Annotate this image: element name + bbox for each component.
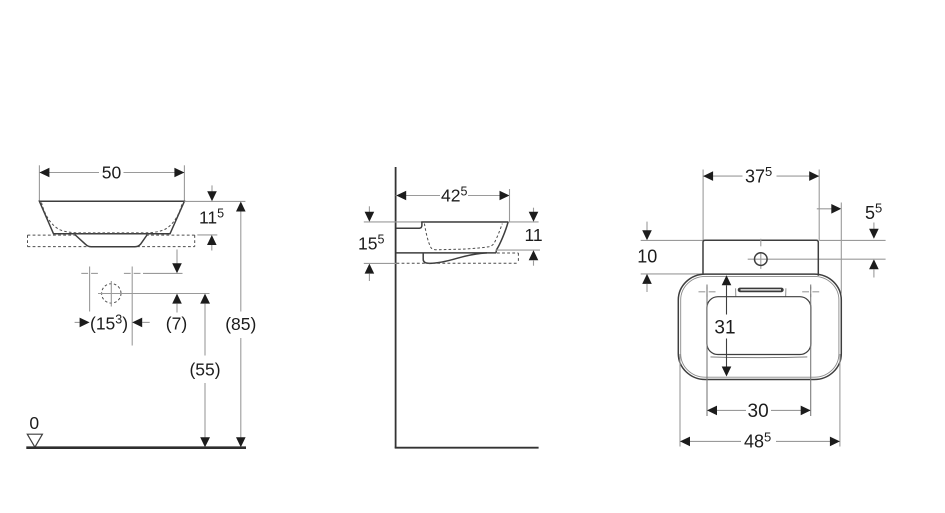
fixing point cross left (81, 272, 88, 274)
basin side profile: underside bulge (423, 253, 487, 263)
dim (7) down arrow (176, 250, 178, 265)
dim 10 down arrow (646, 222, 648, 231)
countertop dashed bottom edge (28, 246, 90, 248)
dim 42.5 text (440, 188, 468, 203)
basin bowl hidden edge dashed (side) (424, 224, 502, 250)
svg-text:31: 31 (714, 317, 735, 338)
fixing cross left (plan) (699, 291, 706, 293)
svg-text:0: 0 (29, 413, 39, 433)
dim 50 arrow right (174, 168, 184, 178)
dim 15.5 lower reference line (364, 262, 397, 264)
basin outer inner offset line (681, 276, 839, 377)
dim (15.3) arrow right (142, 321, 150, 323)
basin bowl hidden edge (dashed) (42, 203, 183, 233)
dim 42.5 extension line right (509, 189, 511, 222)
dim 10 up arrow (642, 274, 652, 284)
dim 30 extension line right (810, 285, 812, 417)
dim 48.5 line (680, 440, 840, 442)
dim 30 arrow right (801, 406, 811, 416)
dim (7) up arrow (172, 294, 182, 304)
dim 50 line (39, 172, 184, 174)
fixing cross right (plan) (802, 291, 809, 293)
dim 48.5 arrow right (830, 437, 840, 447)
dim 31 up arrow (722, 275, 732, 285)
basin side profile: front edge (496, 222, 508, 253)
dim 15.5 down arrow (368, 206, 370, 212)
drain centerline vertical (110, 281, 112, 307)
dim 31 line upper segment (726, 285, 728, 314)
dim 5.5 down arrow (873, 223, 875, 230)
dim (15.3) arrow left (75, 321, 80, 323)
overflow slot inner (741, 289, 782, 291)
dim 50 extension line left (38, 165, 40, 201)
svg-text:10: 10 (637, 246, 657, 266)
dim 37.5 extension line left (702, 170, 704, 241)
svg-text:(55): (55) (189, 360, 220, 380)
svg-text:(7): (7) (166, 314, 187, 334)
dim 10 lower reference line (641, 273, 702, 275)
countertop dashed top edge (28, 234, 77, 236)
dim 50 arrow left (39, 168, 49, 178)
dim 30 arrow left (707, 406, 717, 416)
dim (55) line upper segment (200, 294, 210, 304)
countertop dashed bottom edge (397, 262, 519, 264)
dim 37.5 extension line right (818, 170, 820, 241)
svg-text:(85): (85) (225, 314, 256, 334)
tap hole circle (755, 253, 768, 266)
datum triangle (27, 434, 42, 447)
svg-text:(153): (153) (90, 313, 128, 334)
basin front outline (39, 201, 184, 234)
dim (7) upper reference line (143, 272, 183, 274)
basin side profile: shelf top edge (396, 222, 422, 228)
inner bowl lower shelf line (711, 356, 808, 359)
dim 42.5 arrow left (396, 191, 406, 201)
fixing point cross right (124, 272, 131, 274)
countertop dashed right edge (194, 235, 196, 247)
dim 42.5 line (396, 195, 510, 197)
svg-text:50: 50 (102, 163, 122, 183)
overflow slot outer (738, 288, 784, 293)
dim 37.5 arrow right (809, 171, 819, 181)
tap hole reference line (748, 258, 886, 260)
drain hole dashed circle (102, 284, 121, 303)
dim 11 down arrow (533, 208, 535, 213)
dim 48.5 extension line left (679, 354, 681, 447)
dim 31 line lower segment (726, 339, 728, 367)
dim 30 text (746, 403, 771, 418)
svg-text:11: 11 (525, 225, 543, 245)
basin right edge extension line (840, 203, 842, 294)
dim (55) line lower segment (204, 383, 206, 438)
dim 42.5 arrow right (500, 191, 510, 201)
dim 11 lower reference line (496, 249, 540, 251)
ground line (26, 446, 246, 449)
countertop dashed (side view) top edge (497, 252, 518, 254)
dim (85) line lower segment (240, 338, 242, 438)
dim 11 up arrow (529, 250, 539, 260)
overflow housing side ticks (735, 288, 737, 296)
dim 5.5 up arrow (869, 259, 879, 269)
dim 50 extension line right (183, 165, 185, 201)
dim 5.5 horizontal pointer line (817, 208, 833, 210)
dim 48.5 text (741, 434, 776, 450)
dim (85) up arrow (236, 202, 246, 212)
countertop dashed right edge (517, 253, 519, 263)
dim (85) line upper segment (240, 212, 242, 312)
shelf rectangle (703, 240, 818, 275)
dim 50 text (99, 165, 124, 180)
dim 11.5 lower reference line (countertop level) (197, 234, 217, 236)
tap hole centerline vertical (760, 239, 762, 247)
basin outer outline (678, 274, 841, 379)
dim 37.5 text (743, 169, 777, 185)
dim 30 line (707, 409, 811, 411)
shelf front reference line (819, 239, 885, 241)
basin side profile: bottom edge (396, 252, 496, 254)
dim 11.5 down arrow (211, 185, 213, 192)
basin drain bulge below countertop (75, 235, 147, 247)
dim 10 upper reference line (641, 239, 703, 241)
dim 37.5 line (703, 175, 819, 177)
countertop dashed left edge (27, 235, 29, 247)
wall line (395, 167, 397, 448)
floor line (395, 447, 539, 449)
drain centerline horizontal reference (98, 293, 210, 295)
rim level reference line (364, 221, 539, 223)
basin side profile: rim (421, 221, 508, 223)
svg-text:30: 30 (748, 401, 769, 422)
dim 11.5 upper reference line (rim level) (184, 200, 245, 202)
dim 37.5 arrow left (703, 171, 713, 181)
inner bowl outline (707, 297, 811, 355)
dim 48.5 extension line right (839, 354, 841, 447)
dim 15.5 up arrow (365, 264, 375, 274)
dim 31 down arrow (722, 367, 732, 377)
dim 30 extension line left (706, 285, 708, 417)
dim 48.5 arrow left (680, 437, 690, 447)
dim 11.5 up arrow (207, 235, 217, 245)
